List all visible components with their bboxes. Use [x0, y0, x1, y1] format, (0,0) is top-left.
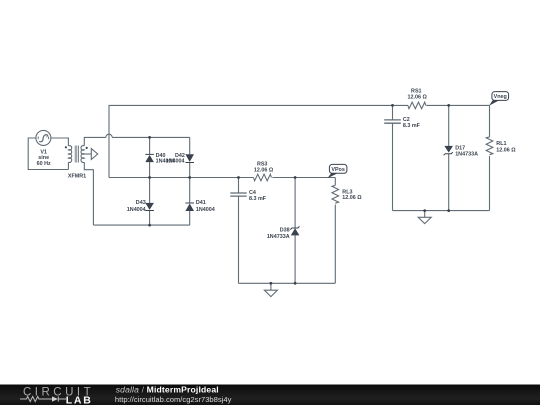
- diode D42: [185, 154, 194, 163]
- svg-text:12.06 Ω: 12.06 Ω: [408, 95, 428, 101]
- svg-text:60 Hz: 60 Hz: [37, 161, 51, 167]
- resistor RS3: [254, 174, 272, 181]
- wire D17 branch: [448, 105, 450, 210]
- svg-text:RL1: RL1: [496, 141, 506, 147]
- wire right bottom rail: [393, 210, 490, 212]
- svg-text:VPos: VPos: [331, 167, 344, 173]
- svg-text:D38: D38: [280, 227, 290, 233]
- wire RL3 branch: [334, 178, 336, 284]
- svg-text:RS1: RS1: [411, 88, 422, 94]
- logo schematic decoration: [20, 396, 66, 401]
- svg-text:D41: D41: [196, 200, 206, 206]
- svg-text:C4: C4: [249, 190, 256, 196]
- wire hop over vertical: [106, 134, 112, 137]
- svg-text:8.3 mF: 8.3 mF: [403, 123, 421, 129]
- wire left diode column: [149, 137, 151, 225]
- transformer phase dots: [65, 146, 67, 148]
- svg-text:1N4004: 1N4004: [127, 207, 146, 213]
- svg-text:sdalla / MidtermProjIdeal: sdalla / MidtermProjIdeal: [116, 384, 219, 394]
- junction dots: [148, 104, 450, 285]
- svg-text:1N4733A: 1N4733A: [267, 234, 290, 240]
- wire primary bottom lead: [67, 162, 69, 169]
- wire source loop left: [28, 138, 68, 170]
- svg-text:1N4733A: 1N4733A: [455, 152, 478, 158]
- zener diode D38: [290, 226, 299, 235]
- svg-text:12.06 Ω: 12.06 Ω: [342, 195, 362, 201]
- wire right diode column: [189, 137, 191, 225]
- diode D43: [145, 203, 154, 211]
- svg-text:1N4004: 1N4004: [196, 207, 215, 213]
- wire top rail: [109, 105, 490, 177]
- wire rail3 right of RS3: [272, 177, 335, 179]
- svg-text:LAB: LAB: [66, 395, 93, 405]
- svg-text:12.06 Ω: 12.06 Ω: [496, 148, 516, 154]
- wire bridge bottom rail: [93, 224, 189, 226]
- flag VPos: [327, 164, 347, 178]
- ground right: [418, 211, 431, 224]
- wire D38 branch: [294, 178, 296, 284]
- svg-text:12.06 Ω: 12.06 Ω: [254, 168, 274, 174]
- capacitor C2: [384, 120, 401, 123]
- wire secondary bottom lead: [84, 162, 93, 225]
- ground middle: [264, 283, 277, 296]
- resistor RL1: [486, 137, 493, 155]
- svg-text:http://circuitlab.com/cg2sr73b: http://circuitlab.com/cg2sr73b8sj4y: [115, 395, 232, 404]
- transformer center tap wire: [84, 153, 91, 155]
- svg-text:D43: D43: [136, 200, 146, 206]
- svg-text:D17: D17: [455, 146, 465, 152]
- transformer center tap arrow: [91, 149, 97, 160]
- svg-text:1N4004: 1N4004: [166, 159, 185, 165]
- svg-text:RS3: RS3: [257, 161, 268, 167]
- svg-text:C2: C2: [403, 117, 410, 123]
- diode D40: [145, 154, 154, 162]
- resistor RL3: [332, 185, 339, 203]
- flag Vneg: [489, 92, 508, 106]
- wire secondary top lead to rail: [84, 137, 106, 145]
- svg-text:Vneg: Vneg: [494, 94, 507, 100]
- resistor RS1: [408, 102, 426, 109]
- wire middle bottom rail: [239, 282, 336, 284]
- wire rail2 to diode bridge top: [112, 136, 190, 138]
- svg-text:8.3 mF: 8.3 mF: [249, 196, 267, 202]
- transformer XFMR1: [68, 146, 84, 163]
- wire RL1 branch: [489, 105, 491, 210]
- diode D41: [185, 203, 194, 212]
- wire C4 branch: [238, 178, 240, 284]
- wire C2 branch: [392, 105, 394, 210]
- footer bar: [0, 385, 540, 405]
- wire rail3 left of RS3: [109, 177, 254, 179]
- zener diode D17: [444, 146, 453, 155]
- voltage source V1: [36, 130, 51, 145]
- svg-text:XFMR1: XFMR1: [68, 173, 86, 179]
- capacitor C4: [230, 193, 246, 196]
- wire source to transformer primary: [51, 138, 69, 146]
